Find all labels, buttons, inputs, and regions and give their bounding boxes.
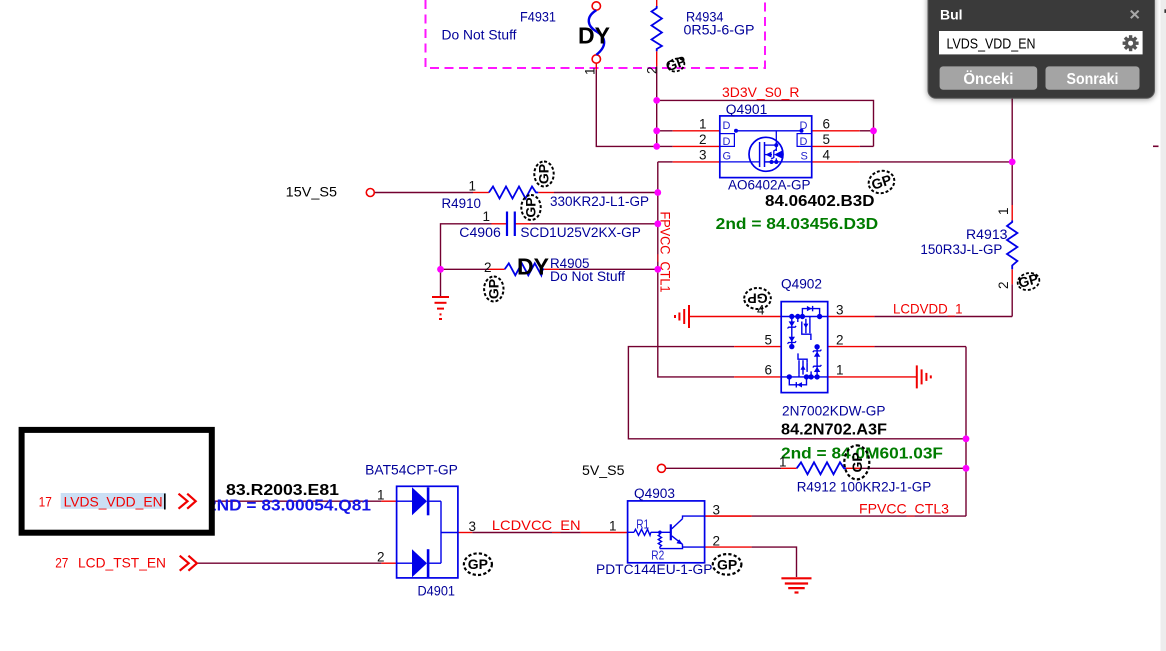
svg-text:GP: GP bbox=[485, 279, 501, 299]
svg-text:Bul: Bul bbox=[940, 7, 963, 23]
resistor R4905 bbox=[505, 263, 544, 275]
wire stub right edge bbox=[1153, 145, 1159, 147]
svg-text:D: D bbox=[723, 120, 731, 132]
stamp GP (D4901) bbox=[464, 553, 492, 575]
junction 3D3V at R4934 bbox=[653, 97, 660, 104]
svg-text:Q4901: Q4901 bbox=[726, 102, 768, 117]
button Önceki bbox=[940, 66, 1038, 89]
svg-text:GP: GP bbox=[717, 556, 737, 572]
wire 5V_S5 to R4912 bbox=[666, 467, 782, 469]
capacitor C4906 bbox=[506, 212, 508, 237]
wire net FPVCC_CTL1 vertical bbox=[658, 162, 734, 377]
svg-text:0R5J-6-GP: 0R5J-6-GP bbox=[684, 23, 755, 38]
svg-text:1: 1 bbox=[836, 363, 844, 378]
wire Q4902 pin2 to pull-up column bbox=[828, 346, 875, 348]
svg-text:R4913: R4913 bbox=[966, 227, 1008, 242]
gear icon bbox=[1123, 35, 1139, 51]
svg-text:LVDS_VDD_EN: LVDS_VDD_EN bbox=[64, 494, 163, 510]
wire Q4901 pin3 gate from FPVCC_CTL1 bbox=[658, 161, 673, 163]
wire R4912 to pull-up column bbox=[846, 467, 861, 469]
wire 15V_S5 to R4910 bbox=[374, 192, 473, 194]
ground (C4906/R4905) bbox=[432, 297, 449, 319]
text cursor bbox=[164, 494, 166, 510]
svg-text:2: 2 bbox=[377, 550, 385, 565]
resistor R4910 bbox=[489, 187, 538, 199]
junction pull-up column loop bbox=[963, 435, 970, 442]
svg-text:R1: R1 bbox=[636, 518, 649, 532]
svg-text:F4931: F4931 bbox=[520, 10, 556, 25]
wire Q4902 pin4 from ground bbox=[689, 316, 781, 318]
stamp GP (Q4901) bbox=[866, 168, 898, 197]
svg-text:5: 5 bbox=[765, 332, 773, 347]
svg-text:R2: R2 bbox=[651, 549, 664, 563]
svg-text:Do Not Stuff: Do Not Stuff bbox=[550, 269, 625, 284]
stamp GP (Q4903) bbox=[713, 554, 742, 575]
svg-text:GP: GP bbox=[536, 164, 552, 184]
fuse F4931 bbox=[589, 2, 604, 63]
svg-text:330KR2J-L1-GP: 330KR2J-L1-GP bbox=[550, 194, 649, 209]
wire LVDS_VDD_EN from port to D4901 pin1 bbox=[196, 500, 382, 502]
svg-text:1: 1 bbox=[483, 209, 491, 224]
find dialog (Bul) bbox=[928, 0, 1155, 98]
svg-text:GP: GP bbox=[849, 452, 865, 472]
svg-text:AO6402A-GP: AO6402A-GP bbox=[728, 178, 811, 193]
ground (Q4902 pin1, pointing right) bbox=[917, 365, 931, 388]
wire C4906 right branch bbox=[516, 223, 531, 225]
svg-text:5: 5 bbox=[823, 132, 831, 147]
svg-text:84.2N702.A3F: 84.2N702.A3F bbox=[781, 422, 887, 439]
svg-text:1: 1 bbox=[583, 67, 598, 75]
svg-text:D: D bbox=[800, 136, 808, 148]
wire R4905 left branch bbox=[441, 268, 490, 270]
svg-text:2: 2 bbox=[836, 332, 844, 347]
diode D4901 (BAT54CPT) bbox=[397, 486, 458, 578]
resistor R4912 bbox=[797, 462, 846, 474]
svg-text:15V_S5: 15V_S5 bbox=[286, 184, 338, 200]
svg-text:Önceki: Önceki bbox=[963, 71, 1013, 88]
svg-text:Q4903: Q4903 bbox=[634, 486, 675, 501]
svg-text:150R3J-L-GP: 150R3J-L-GP bbox=[920, 242, 1002, 257]
svg-text:84.06402.B3D: 84.06402.B3D bbox=[765, 193, 875, 210]
svg-text:2: 2 bbox=[713, 534, 721, 549]
stamp GP (R4905) bbox=[484, 277, 503, 302]
svg-text:LCD_TST_EN: LCD_TST_EN bbox=[78, 555, 166, 571]
svg-text:1: 1 bbox=[377, 488, 385, 503]
wire LCD_TST_EN from port to D4901 pin2 bbox=[197, 562, 382, 564]
diode D4901 top element bbox=[412, 487, 427, 515]
blue pin dots Q4901 bbox=[734, 129, 738, 133]
base junction dot Q4903 bbox=[658, 531, 662, 535]
svg-text:2: 2 bbox=[699, 132, 707, 147]
svg-text:1: 1 bbox=[996, 207, 1011, 215]
svg-text:83.R2003.E81: 83.R2003.E81 bbox=[226, 482, 339, 499]
wire R4910 to FPVCC_CTL1 bbox=[538, 192, 554, 194]
selection highlight LVDS_VDD_EN bbox=[61, 493, 166, 509]
stamp GP (R4913) bbox=[1016, 270, 1042, 292]
port chevron LCD_TST_EN bbox=[180, 556, 197, 571]
wire net LCDVCC_EN bbox=[458, 532, 472, 534]
stamp GP (Q4902, upside down) bbox=[744, 288, 771, 309]
svg-text:Do Not Stuff: Do Not Stuff bbox=[442, 28, 517, 43]
svg-text:DY: DY bbox=[517, 254, 549, 280]
svg-text:BAT54CPT-GP: BAT54CPT-GP bbox=[365, 463, 458, 478]
svg-text:3: 3 bbox=[836, 302, 844, 317]
svg-text:3D3V_S0_R: 3D3V_S0_R bbox=[722, 84, 800, 100]
resistor R4934 bbox=[656, 0, 658, 6]
stamp GP (R4910 a) bbox=[534, 162, 553, 187]
wire R4905 right branch bbox=[544, 268, 559, 270]
svg-text:2N7002KDW-GP: 2N7002KDW-GP bbox=[782, 404, 886, 419]
svg-text:R4910: R4910 bbox=[442, 196, 482, 211]
scrollbar mark bbox=[1164, 9, 1166, 13]
svg-text:5V_S5: 5V_S5 bbox=[582, 462, 625, 478]
svg-text:FPVCC_CTL3: FPVCC_CTL3 bbox=[859, 501, 949, 517]
wire Q4901 pin5 bbox=[812, 145, 860, 147]
svg-text:Q4902: Q4902 bbox=[781, 277, 822, 292]
wire Q4902 pin5 loop bbox=[628, 347, 966, 439]
ground (Q4903 pin2) bbox=[781, 578, 811, 592]
wire Q4903 pin2 to ground bbox=[705, 546, 752, 548]
svg-text:SCD1U25V2KX-GP: SCD1U25V2KX-GP bbox=[520, 225, 641, 240]
wire Q4901 pin4 source to R4913 column bbox=[812, 161, 860, 163]
stamp GP (R4934) bbox=[664, 53, 688, 75]
wire Q4902 pin1 to ground bbox=[828, 376, 917, 378]
Q4902 internal bottom half (mirrored) bbox=[781, 345, 828, 388]
svg-text:1: 1 bbox=[699, 117, 707, 132]
wire ground branch below C4906/R4905 bbox=[440, 269, 442, 296]
scrollbar strip bbox=[1161, 0, 1166, 651]
wire Q4903 pin3 bbox=[705, 515, 752, 517]
svg-text:2: 2 bbox=[484, 260, 492, 275]
junction Q4901 pin1 bbox=[653, 127, 660, 134]
svg-text:PDTC144EU-1-GP: PDTC144EU-1-GP bbox=[596, 562, 713, 577]
svg-text:2: 2 bbox=[996, 281, 1011, 289]
svg-text:GP: GP bbox=[468, 556, 488, 572]
svg-text:2ND = 83.00054.Q81: 2ND = 83.00054.Q81 bbox=[207, 498, 371, 515]
wire fuse F4931 bottom to Q4901 pin2 row bbox=[595, 63, 597, 70]
svg-text:GP: GP bbox=[747, 291, 767, 307]
MOSFET arrow Q4901 bbox=[765, 152, 771, 158]
junction R4913 top bbox=[1009, 159, 1016, 166]
svg-text:D: D bbox=[723, 136, 731, 148]
terminal 5V_S5 bbox=[658, 464, 666, 472]
transistor Q4901 (AO6402A dual-pin MOSFET) bbox=[720, 116, 812, 178]
svg-text:LVDS_VDD_EN: LVDS_VDD_EN bbox=[947, 37, 1036, 53]
svg-text:3: 3 bbox=[469, 519, 477, 534]
port chevron LVDS_VDD_EN bbox=[179, 494, 196, 509]
svg-text:3: 3 bbox=[713, 503, 721, 518]
svg-text:1: 1 bbox=[779, 455, 787, 470]
wire Q4901 pin2 bbox=[657, 145, 673, 147]
svg-text:1: 1 bbox=[609, 519, 617, 534]
junction R4905 at FPVCC_CTL1 bbox=[654, 266, 661, 273]
junction C4906/R4905/ground bbox=[437, 266, 444, 273]
svg-text:G: G bbox=[723, 151, 732, 163]
junction Q4901 pin2 bbox=[653, 143, 660, 150]
emitter arrow Q4903 bbox=[677, 539, 683, 544]
diode D4901 bottom element bbox=[412, 549, 427, 577]
transistor Q4903 (PDTC144EU digital NPN) bbox=[628, 501, 705, 563]
svg-text:LCDVCC_EN: LCDVCC_EN bbox=[492, 517, 581, 533]
svg-text:GP: GP bbox=[523, 197, 539, 217]
svg-text:R4912 100KR2J-1-GP: R4912 100KR2J-1-GP bbox=[797, 480, 932, 495]
svg-text:DY: DY bbox=[578, 23, 610, 49]
resistor R4913 bbox=[1007, 220, 1017, 269]
junction pull-up column R4912 bbox=[963, 465, 970, 472]
svg-text:2: 2 bbox=[645, 66, 660, 74]
svg-text:27: 27 bbox=[55, 555, 68, 571]
junction R4910 at FPVCC_CTL1 bbox=[654, 189, 661, 196]
button Sonraki bbox=[1046, 66, 1140, 89]
transistor Q4902 (2N7002KDW dual MOSFET) bbox=[781, 302, 828, 393]
svg-text:D4901: D4901 bbox=[418, 584, 456, 599]
junction Q4901 pin6 right bbox=[870, 127, 877, 134]
svg-text:C4906: C4906 bbox=[459, 225, 501, 240]
wire pull-up column vertical bbox=[965, 347, 967, 516]
Q4902 internal top half bbox=[781, 306, 828, 349]
Do-Not-Stuff dashed area box bbox=[426, 0, 766, 68]
terminal 15V_S5 bbox=[366, 189, 374, 197]
svg-text:D: D bbox=[800, 120, 808, 132]
svg-text:17: 17 bbox=[39, 494, 52, 510]
stamp GP (R4910 b) bbox=[521, 195, 540, 220]
stamp GP (R4912/green row) bbox=[844, 445, 869, 479]
wire R4913 column vertical bbox=[1011, 98, 1013, 205]
ground (Q4902 pin4, pointing left) bbox=[675, 305, 689, 328]
wire Q4901 pin1 bbox=[657, 130, 673, 132]
wire net 3D3V_S0_R top horizontal bbox=[657, 100, 874, 146]
wire net LCDVDD_1 bbox=[828, 316, 875, 318]
svg-text:LCDVDD_1: LCDVDD_1 bbox=[893, 301, 963, 317]
svg-text:2nd = 84.03456.D3D: 2nd = 84.03456.D3D bbox=[716, 216, 879, 233]
svg-text:Sonraki: Sonraki bbox=[1067, 71, 1119, 88]
wire Q4901 pin6 bbox=[812, 130, 860, 132]
svg-text:3: 3 bbox=[699, 148, 707, 163]
junction C4906 at FPVCC_CTL1 bbox=[654, 220, 661, 227]
svg-text:S: S bbox=[801, 151, 808, 163]
svg-text:6: 6 bbox=[823, 117, 831, 132]
wire R4934 bottom vertical bbox=[656, 51, 658, 66]
svg-text:1: 1 bbox=[469, 179, 477, 194]
selection frame black rectangle bbox=[22, 430, 212, 533]
svg-text:4: 4 bbox=[823, 148, 831, 163]
svg-text:6: 6 bbox=[765, 363, 773, 378]
svg-text:FPVCC_CTL1: FPVCC_CTL1 bbox=[658, 212, 674, 293]
wire net FPVCC_CTL3 bbox=[705, 515, 752, 517]
wire C4906 left branch bbox=[441, 224, 492, 269]
